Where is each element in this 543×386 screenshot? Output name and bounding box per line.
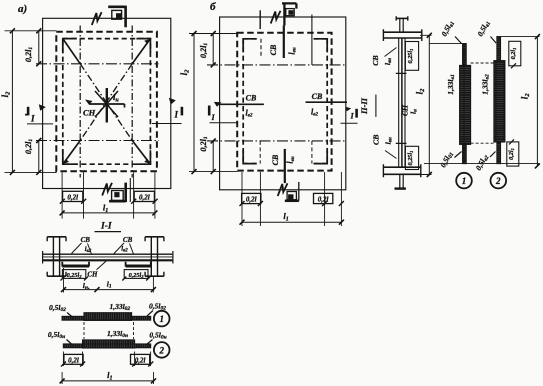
- outer contour rectangle: [220, 17, 346, 190]
- bottom dimension extension lines: [242, 172, 341, 226]
- corner L marks of inner rectangle: [63, 39, 151, 165]
- break symbol top edge: [92, 12, 102, 25]
- bar 2 hatched middle part: [83, 340, 135, 348]
- bottom dimension line: [62, 380, 153, 382]
- horizontal extension line upper: [36, 63, 159, 65]
- svg-text:СН: СН: [83, 108, 96, 118]
- svg-text:I-I: I-I: [100, 221, 112, 231]
- vertical axis line left: [79, 26, 81, 178]
- vertical bar 2 body: [497, 37, 501, 164]
- section marker П right: [355, 109, 358, 118]
- slab vertical lines: [399, 38, 405, 167]
- svg-text:0,25l2: 0,25l2: [67, 272, 83, 279]
- section marker П left: [208, 106, 211, 116]
- section I-I drawing: [43, 221, 173, 292]
- svg-text:1: 1: [159, 314, 164, 324]
- thick dashed rectangle (slab edge): [56, 32, 157, 171]
- top mesh bar mark: [283, 26, 285, 59]
- bar 1 hatched middle part: [84, 313, 132, 321]
- dimension line l1 bottom: [242, 221, 341, 223]
- bar 1 body: [62, 316, 151, 320]
- top edge tick: [259, 10, 261, 29]
- svg-text:П-П: П-П: [359, 98, 369, 115]
- right support column: [151, 237, 157, 276]
- svg-text:СВ: СВ: [371, 135, 380, 145]
- left support column: [53, 237, 59, 276]
- left dimension 0,2l1 upper: [212, 34, 214, 65]
- short inner verticals top: [260, 39, 262, 58]
- figure a) slab plan with corner reinforcement: [0, 3, 183, 219]
- centre mark horizontal bar with end tick: [89, 104, 125, 108]
- circle mark 1: [154, 311, 170, 327]
- break symbol bottom edge: [278, 183, 288, 196]
- right mesh bar mark: [306, 101, 348, 103]
- l2 dimension line: [428, 35, 430, 174]
- thick dashed rectangle: [237, 33, 331, 171]
- svg-text:0,2l: 0,2l: [246, 196, 257, 204]
- bar 1 hatched middle: [460, 65, 471, 144]
- mesh end ticks: [396, 73, 407, 143]
- circle mark 1 vertical: [456, 173, 472, 189]
- CH bottom bar left with hooks: [62, 265, 89, 268]
- dimension extension verticals: [63, 352, 150, 367]
- svg-text:СВ: СВ: [81, 236, 91, 244]
- extension lines left: [189, 34, 238, 172]
- centre mark CH vertical bar: [106, 88, 108, 123]
- solid diagonal cross near centre: [95, 91, 118, 117]
- left dimension l2 line: [11, 31, 13, 173]
- 0,2l box right: [131, 354, 150, 364]
- dashed connectors between vertical bars: [471, 63, 494, 143]
- bottom mesh bar mark: [284, 149, 286, 183]
- svg-text:0,2l: 0,2l: [318, 196, 329, 204]
- svg-text:1: 1: [462, 176, 467, 186]
- top column upper flange: [396, 17, 408, 19]
- svg-text:0,25l2: 0,25l2: [129, 272, 145, 279]
- slab lines: [43, 253, 173, 255]
- circle mark 2: [154, 342, 170, 358]
- svg-text:I: I: [174, 110, 179, 120]
- inner dashed rectangle (mesh boundary): [63, 39, 151, 165]
- svg-text:0,2l: 0,2l: [67, 194, 78, 202]
- slab end ticks: [43, 251, 173, 264]
- corner L marks inner rect: [243, 39, 327, 164]
- 0,25l2 box left: [62, 270, 85, 279]
- svg-text:СВ: СВ: [123, 236, 133, 244]
- horizontal extension/axis line upper: [207, 64, 347, 66]
- left dimension 0,2l1 line lower: [38, 141, 40, 173]
- vertical axis line right: [131, 26, 133, 178]
- 0,25l1 box top: [405, 42, 418, 71]
- left mesh bar mark: [217, 103, 264, 105]
- centre arrow left: [85, 100, 93, 105]
- CH bottom bar right with hooks: [126, 265, 151, 268]
- svg-text:2: 2: [495, 176, 501, 186]
- svg-text:0,25l1: 0,25l1: [407, 151, 414, 166]
- dimension line l1 bottom: [62, 212, 155, 214]
- left dimension 0,2l1 line upper: [38, 31, 40, 64]
- bottom column flange: [395, 187, 406, 189]
- svg-text:а): а): [18, 3, 27, 15]
- horizontal extension line lower: [36, 140, 159, 142]
- extension lines right: [424, 37, 540, 164]
- svg-text:СВ: СВ: [312, 92, 323, 101]
- extension line bottom-left: [5, 171, 57, 173]
- break symbol bottom edge: [102, 183, 112, 196]
- top support cross flanges: [383, 32, 421, 38]
- svg-text:0,2l: 0,2l: [68, 356, 79, 364]
- svg-text:0,25l1: 0,25l1: [407, 49, 414, 64]
- dimension line below section: [64, 289, 154, 291]
- svg-text:0,2l1: 0,2l1: [508, 148, 515, 160]
- section II-II drawing (vertical): [371, 16, 432, 188]
- 0,2l1 box bottom right: [507, 142, 519, 166]
- short inner verticals bottom: [260, 141, 312, 164]
- left dimension l2 line: [193, 34, 195, 172]
- bottom dimension extension lines: [62, 172, 155, 218]
- 0,2l box right: [134, 191, 154, 201]
- 0,2l box left: [64, 354, 83, 364]
- right l2 dimension line: [536, 37, 538, 166]
- svg-text:СН: СН: [87, 271, 98, 279]
- svg-text:0,2l1: 0,2l1: [510, 48, 517, 60]
- 0,2l1 box top right: [509, 41, 521, 66]
- horizontal bar details 1 and 2: [48, 302, 170, 385]
- bottom support cross flanges: [383, 167, 420, 174]
- section marker I right: [181, 107, 184, 116]
- svg-text:б: б: [210, 1, 216, 13]
- svg-text:СВ: СВ: [246, 94, 257, 103]
- 0,25l2 box right: [124, 270, 148, 279]
- bottom flag marker III: [285, 200, 299, 203]
- diagonal TR-BL: [132, 39, 150, 64]
- bar 2 hatched middle: [494, 61, 505, 142]
- horizontal extension/axis line lower: [207, 140, 347, 142]
- dashed connectors between bars: [84, 322, 134, 339]
- bottom flag marker III: [109, 183, 126, 202]
- figure б) slab plan with edge meshes: [179, 1, 376, 226]
- break symbol top edge: [271, 11, 281, 24]
- svg-text:СВ: СВ: [371, 55, 380, 65]
- extension line top-left: [5, 30, 57, 32]
- diagonal TL-BR: [63, 39, 80, 64]
- svg-text:I: I: [30, 114, 35, 124]
- vertical bar 1 body: [463, 44, 467, 164]
- bar 2 body: [63, 344, 150, 348]
- svg-text:СВ: СВ: [271, 154, 280, 165]
- outer contour rectangle: [43, 18, 171, 188]
- inner dashed rectangle: [243, 38, 327, 40]
- svg-text:0,2l: 0,2l: [139, 194, 150, 202]
- svg-text:СВ: СВ: [269, 44, 278, 55]
- section marker I left: [27, 107, 30, 116]
- 0,2l box left: [242, 193, 261, 203]
- top flag marker III: [108, 6, 125, 28]
- vertical bar details 1 and 2: [424, 19, 540, 189]
- circle mark 2 vertical: [491, 173, 507, 189]
- top flag marker III: [282, 3, 296, 26]
- bottom column web: [400, 174, 403, 188]
- svg-text:2: 2: [158, 345, 164, 355]
- top column web: [400, 18, 403, 32]
- 0,2l box right: [314, 193, 333, 203]
- 0,25l1 box bottom: [405, 146, 418, 169]
- left dimension 0,2l1 lower: [212, 141, 214, 172]
- 0,2l box left: [63, 191, 83, 201]
